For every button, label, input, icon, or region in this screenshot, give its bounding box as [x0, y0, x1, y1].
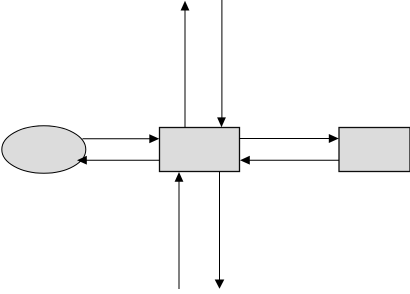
ellipse (terminator, left): [2, 126, 86, 174]
process box (center): [160, 128, 240, 172]
arrow center box to right box (upper right horizontal): [240, 134, 339, 143]
process box (right, clipped at edge): [339, 128, 410, 172]
arrow down into center box top (from off top edge): [217, 0, 226, 127]
arrow up from center box top (off top edge): [181, 1, 190, 128]
arrow down from center box bottom (to bottom edge): [215, 172, 225, 289]
arrow right box to center box (lower right horizontal): [240, 156, 339, 165]
arrow up into center box bottom (from off bottom edge): [175, 172, 184, 289]
arrow ellipse to center box (upper left horizontal): [83, 134, 160, 143]
arrow center box to ellipse (lower left horizontal): [77, 156, 160, 165]
